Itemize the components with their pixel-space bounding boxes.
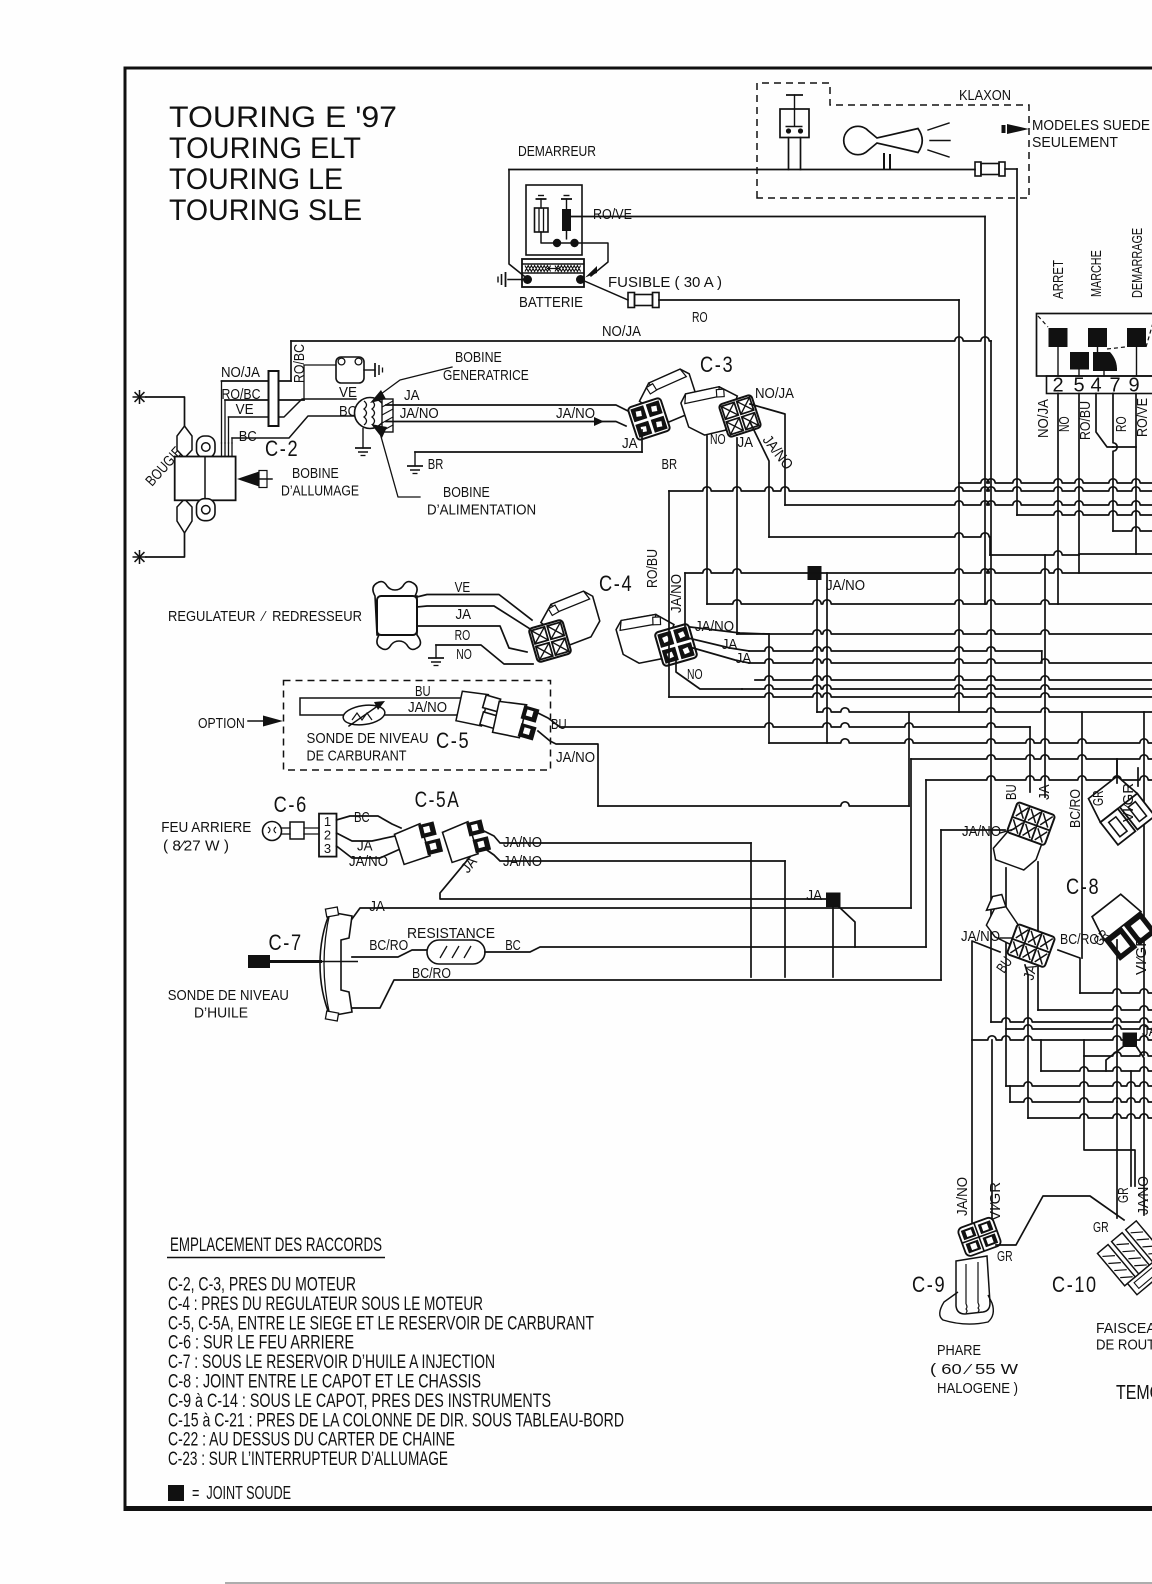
svg-text:JA/NO: JA/NO [556,405,595,422]
wire row 505 [785,501,1152,505]
svg-text:C-7 : SOUS LE RESERVOIR D’HUIL: C-7 : SOUS LE RESERVOIR D’HUILE A INJECT… [168,1352,495,1373]
wire link 1086 1102 [1009,1086,1011,1102]
solder joint JA/NO [808,566,822,580]
svg-text:JA/NO: JA/NO [400,405,439,422]
wire joint down [816,580,818,712]
svg-text:NO/JA: NO/JA [755,385,794,402]
svg-text:JA/NO: JA/NO [695,618,734,635]
wire GR down [1116,940,1118,1102]
svg-text:VI⁄GR: VI⁄GR [1120,783,1137,822]
svg-text:3: 3 [324,841,331,856]
horn fuse [975,162,981,176]
svg-text:GR: GR [1090,790,1107,806]
headlamp connector C-9 [957,1216,1002,1257]
wire row 1029 [1006,1025,1152,1029]
wire 827 down [826,573,828,743]
wire row 697 [669,693,1152,697]
wire row 604 [707,600,1152,604]
wire JA from C-6 [337,833,396,841]
battery terminal dots [523,275,532,284]
connector C-3 male [621,367,704,441]
svg-text:C-3: C-3 [700,352,734,377]
joint JA branches [838,906,855,947]
spark plug star top [133,390,147,404]
wire RO/VE from starter [571,216,985,218]
wire JA from C-7 [352,908,911,919]
wire row 1086 [1006,1082,1152,1086]
tail light socket [290,822,304,839]
wire BU row 727 [560,723,1030,727]
wire BR from C-3 [641,430,643,438]
svg-text:= JOINT SOUDE: = JOINT SOUDE [192,1483,291,1503]
wire row 491 [669,487,1152,491]
wire pin2 down [1057,394,1059,605]
svg-text:BOBINE: BOBINE [455,349,502,366]
svg-text:TOURING SLE: TOURING SLE [169,194,362,227]
svg-text:SONDE DE NIVEAU: SONDE DE NIVEAU [307,730,429,747]
svg-text:JA/NO: JA/NO [954,1177,971,1216]
wire row 680 [755,676,1152,680]
spark plug boot top [177,426,192,458]
svg-text:TOURING E '97: TOURING E '97 [169,101,397,134]
wire row 1010 [1038,1006,1152,1010]
switch internal links [1057,347,1059,376]
wires right edge connectors [1116,759,1118,783]
svg-text:C-9 à C-14 : SOUS LE CAPOT, PR: C-9 à C-14 : SOUS LE CAPOT, PRES DES INS… [168,1391,551,1412]
svg-text:9: 9 [1128,375,1139,397]
wire JA/NO C-5A row 861 [484,848,785,861]
klaxon dashed enclosure [757,83,1029,198]
svg-text:7: 7 [1109,375,1120,397]
svg-text:VI⁄GR: VI⁄GR [1133,936,1150,975]
wire RO/BC to stop switch [304,365,336,400]
svg-text:JA: JA [357,837,373,854]
svg-text:BU: BU [415,683,431,700]
wire row 712 [817,708,1152,712]
wire BU out of C-8 lower [972,941,1000,1222]
connector C-5A male [393,820,443,865]
legend underline [167,1257,385,1259]
svg-text:OPTION: OPTION [198,715,245,732]
wire RO/BC coil [224,400,226,443]
svg-text:GR: GR [997,1248,1013,1265]
wire battery positive cable [509,170,524,277]
wire column 1045 [1044,555,1046,712]
wire C-9 feeds [991,1040,993,1222]
wire NO/JA up and across [290,341,292,381]
wire C-10 feeds [1084,1040,1135,1186]
wire JA/NO from C-4 [690,627,769,634]
connector C-8 upper [990,799,1055,873]
svg-text:BOBINE: BOBINE [443,484,490,501]
connector C-8R upper right [1084,773,1152,845]
wire JA/NO joint to C-4 [684,573,686,628]
svg-text:C-6: C-6 [274,792,308,817]
svg-text:SONDE DE NIVEAU: SONDE DE NIVEAU [168,987,289,1004]
svg-text:FAISCEAU: FAISCEAU [1096,1320,1152,1337]
svg-text:BC/RO: BC/RO [1067,789,1084,828]
wire column 1131 [1130,1071,1132,1186]
legend joint soude symbol [168,1485,184,1501]
horn [844,126,923,154]
headlamp socket [956,1256,990,1314]
svg-text:BC: BC [239,428,257,445]
svg-text:TOURING ELT: TOURING ELT [169,132,361,165]
wire klaxon down [1016,169,1018,515]
option dashed box [284,681,551,771]
arrow modeles suede [1007,124,1029,134]
svg-text:JA: JA [736,650,752,667]
connector C-8 lower [975,891,1063,967]
wire starter to battery positive [579,243,609,276]
wire JA into C-8 upper [1044,712,1046,797]
starter contact dots [553,239,561,247]
wire JA/NO to C-10 [1143,1180,1145,1215]
svg-text:DEMARREUR: DEMARREUR [518,143,596,160]
svg-text:VI⁄GR: VI⁄GR [987,1182,1004,1221]
wire column 1117 [1116,759,1118,790]
spark plug star bottom [133,550,147,564]
svg-text:FEU ARRIERE: FEU ARRIERE [161,819,251,836]
connector C-2 bar [269,371,279,426]
svg-text:C-2, C-3, PRES DU MOTEUR: C-2, C-3, PRES DU MOTEUR [168,1275,356,1296]
wire JA regulator [417,606,538,634]
oil sender body [320,912,352,1016]
svg-text:MARCHE: MARCHE [1088,250,1105,297]
magneto coil circle [355,398,386,429]
wire row 1118 [1028,1114,1152,1118]
svg-text:NO/JA: NO/JA [1035,399,1052,438]
svg-text:RO/BU: RO/BU [644,549,661,588]
svg-text:C-8 : JOINT ENTRE LE CAPOT ET: C-8 : JOINT ENTRE LE CAPOT ET LE CHASSIS [168,1372,481,1393]
svg-text:C-4: C-4 [599,571,633,596]
wire column 1082 [1081,712,1083,958]
solder joint JA [826,893,841,908]
wire pin9 down [1135,394,1137,555]
wire BC from resistance [485,947,926,952]
svg-text:VE: VE [339,384,357,401]
wire row 447 [1113,446,1136,448]
svg-text:C-8: C-8 [1066,874,1100,899]
horn stem [883,153,885,170]
wire NO from C-4 [676,660,742,689]
wire NO/JA coil [221,381,224,443]
wire BU from C-5 [536,712,560,727]
svg-text:RO/VE: RO/VE [593,206,632,223]
horn relay legs [788,138,790,170]
wire row 573 [685,569,1152,573]
wire row 531 [1113,527,1152,531]
wire row 554 [1079,553,1152,555]
wires out of C-8 upper [1037,862,1039,1010]
svg-text:NO/JA: NO/JA [221,364,260,381]
svg-text:BU: BU [1003,784,1020,800]
wire row 663 [749,659,1152,663]
connector C-6 bar [319,814,337,857]
starter terminal symbol left [540,199,542,208]
arrow bobine generatrice [370,390,386,403]
wire BC coil [231,438,233,443]
svg-text:C-5A: C-5A [415,787,461,812]
oil sender probe [248,955,270,968]
wire riser 926 [925,780,927,947]
svg-text:HALOGENE ): HALOGENE ) [937,1380,1018,1397]
svg-text:VE: VE [455,579,471,596]
svg-text:C-10: C-10 [1052,1272,1098,1297]
wire riser 911 [910,759,912,908]
wire RO regulator [417,626,527,652]
wire row 634 [737,630,1152,634]
wire JA/NO from C-5 [538,731,598,806]
arrow bobine alimentation [371,424,387,438]
svg-text:JA: JA [738,434,754,451]
svg-text:EMPLACEMENT DES RACCORDS: EMPLACEMENT DES RACCORDS [170,1235,382,1256]
connector C-5 male [454,687,503,731]
svg-text:NO/JA: NO/JA [602,323,641,340]
svg-text:RO: RO [692,309,708,326]
coil wires entering [221,443,223,457]
switch contact DEMARRAGE [1127,328,1146,347]
svg-text:BOBINE: BOBINE [292,465,339,482]
svg-text:JA: JA [456,606,472,623]
switch pin row box [1047,376,1152,394]
svg-text:C-5: C-5 [436,728,470,753]
magneto ground [362,429,364,449]
starter contact bar [562,209,571,231]
svg-text:C-2: C-2 [265,436,299,461]
wire link 1040 1071 [1040,1040,1042,1071]
svg-text:C-6 : SUR LE FEU ARRIERE: C-6 : SUR LE FEU ARRIERE [168,1333,354,1354]
svg-text:C-7: C-7 [269,930,303,955]
connector C-8R lower right [1088,891,1152,961]
svg-text:BC: BC [354,809,370,826]
wire row 1056 [1084,1052,1152,1056]
wire riser 941 [940,830,942,980]
connector C-5A female [441,818,491,863]
svg-text:JA: JA [404,387,420,404]
ignition coil body [175,457,236,501]
wire pin5 down [1078,394,1080,556]
svg-text:VE: VE [236,401,254,418]
wire JA magneto to C-3 [386,405,628,411]
svg-text:( 8⁄27 W ): ( 8⁄27 W ) [163,837,229,854]
svg-text:BR: BR [662,456,678,473]
svg-text:JA/NO: JA/NO [961,928,1000,945]
svg-text:TEMOIN: TEMOIN [1116,1382,1152,1404]
wire VE coil [228,417,230,443]
switch rotor wedge [1093,352,1117,371]
svg-text:REGULATEUR ⁄ REDRESSEUR: REGULATEUR ⁄ REDRESSEUR [168,608,362,625]
wire riser 909 [908,712,910,806]
svg-text:C-22 : AU DESSUS DU CARTER DE: C-22 : AU DESSUS DU CARTER DE CHAINE [168,1430,455,1451]
wire row 743 [769,739,1152,743]
svg-text:JA: JA [369,898,385,915]
svg-text:NO: NO [456,646,472,663]
svg-text:RO: RO [455,627,471,644]
svg-text:DE ROUTE: DE ROUTE [1096,1336,1152,1353]
connector C-4 male [523,589,607,662]
wire BC from C-6 [337,816,402,828]
starter solenoid coil [535,208,549,232]
stop switch ground [364,369,375,371]
magneto core hatched [382,399,393,432]
svg-text:JA: JA [622,435,638,452]
switch contact lower [1070,352,1089,370]
svg-text:C-9: C-9 [912,1272,946,1297]
wire column 1144 [1143,712,1145,1055]
wire GR C-9 to C-10 [996,1196,1124,1245]
svg-text:JA/NO: JA/NO [556,749,595,766]
regulator ground [435,645,437,658]
svg-text:JA/NO: JA/NO [962,823,1001,840]
wire JA/NO row 806 [598,802,909,806]
wire JA from C-4 row 663 [693,648,749,663]
horn sound lines [928,123,949,130]
wire GR to C-10 [1116,1102,1118,1218]
wire row 483 [959,479,1152,483]
ignition coil mount tab bottom [197,499,216,521]
wire row 1071 [1041,1067,1152,1071]
wire RO/BU down to C-4 [668,491,670,697]
battery [522,259,584,287]
svg-text:C-5, C-5A, ENTRE LE SIEGE ET L: C-5, C-5A, ENTRE LE SIEGE ET LE RESERVOI… [168,1313,594,1334]
scan artifact bottom line [225,1582,1152,1584]
starter terminal symbol right [566,199,568,209]
regulator rectifier [373,582,421,650]
svg-text:TOURING LE: TOURING LE [169,163,343,196]
ignition coil mount tab top [197,436,216,458]
ground BR [414,452,416,466]
svg-text:C-23 : SUR L’INTERRUPTEUR D’AL: C-23 : SUR L’INTERRUPTEUR D’ALLUMAGE [168,1449,448,1470]
wire RO down [958,300,960,712]
ignition switch box [1037,314,1152,377]
svg-text:C-4 : PRES DU REGULATEUR SOUS: C-4 : PRES DU REGULATEUR SOUS LE MOTEUR [168,1294,483,1315]
connector C-3 female [679,375,762,449]
battery plate zigzag left [525,266,551,272]
headlamp shell [940,1292,994,1324]
svg-text:BC/RO: BC/RO [369,937,408,954]
svg-text:FUSIBLE ( 30 A ): FUSIBLE ( 30 A ) [608,274,722,291]
wire NO/JA down [990,341,992,1022]
battery ground symbol [508,279,523,281]
wire row 537 staircase [769,533,990,537]
fuel sender bar [300,698,466,715]
svg-text:D’ALLUMAGE: D’ALLUMAGE [281,483,359,500]
svg-text:DEMARRAGE: DEMARRAGE [1129,228,1146,298]
wire BU into C-8 upper [1029,727,1031,792]
wire JA from C-4 row 651 [688,638,749,651]
svg-text:GR: GR [1093,1219,1109,1236]
wire row 993 [1080,989,1152,993]
wire row 759 [911,755,1152,759]
svg-text:BU: BU [551,716,567,733]
svg-text:C-15 à C-21 : PRES DE LA COLON: C-15 à C-21 : PRES DE LA COLONNE DE DIR.… [168,1410,624,1431]
svg-text:JA/NO: JA/NO [408,699,447,716]
connector C-4 female [614,603,698,676]
svg-text:DE CARBURANT: DE CARBURANT [307,748,407,765]
wire BR [415,451,642,453]
wire VE regulator [417,595,532,621]
fuel sender rheostat [342,703,386,728]
wire row 1022 [991,1018,1152,1022]
starter internal wires [541,232,575,243]
connector C-5 female [491,697,542,743]
svg-text:RO: RO [1113,416,1130,432]
resistance [427,940,485,964]
svg-text:JA/NO: JA/NO [349,853,388,870]
wire spark plug top [146,397,185,426]
svg-text:KLAXON: KLAXON [959,87,1011,104]
svg-text:JA/NO: JA/NO [668,574,685,613]
fuse 30A [628,293,635,308]
svg-text:RO/BC: RO/BC [291,344,308,383]
wire pin7 down [1113,394,1117,532]
wire BC/RO to resistance [352,950,427,957]
wire JA out of C-8 lower [1025,965,1028,1118]
engine stop switch [336,357,364,383]
svg-text:JA: JA [806,887,822,904]
starter solenoid box [526,185,582,255]
svg-text:D’ALIMENTATION: D’ALIMENTATION [427,502,536,519]
svg-text:MODELES SUEDE: MODELES SUEDE [1032,117,1150,134]
wire RO/VE down [984,217,986,605]
switch contact MARCHE [1088,328,1107,347]
wire spark plug bottom [146,533,185,557]
tail light bulb [263,822,282,841]
svg-text:PHARE: PHARE [937,1342,981,1359]
svg-text:SEULEMENT: SEULEMENT [1032,134,1118,151]
svg-text:JA/NO: JA/NO [826,577,865,594]
battery plate zigzag right [555,266,581,272]
switch dashed diagonals [1038,316,1048,327]
svg-text:D’HUILE: D’HUILE [194,1005,248,1022]
joint JA bottom branches [1106,1046,1124,1071]
wire JA/NO C-5A row 843 [482,830,751,843]
connector C-10 [1097,1213,1152,1297]
arrow bobine allumage [237,472,259,487]
spark plug boot bottom [177,499,192,533]
wire klaxon feed [1005,168,1017,170]
wire row 780 [926,776,1152,780]
svg-text:GENERATRICE: GENERATRICE [443,367,529,384]
switch contact ARRET [1049,328,1068,347]
wire row 689 [742,685,1152,689]
wire battery to fuse [585,281,629,300]
wire JA/NO from C-6 [337,846,399,858]
svg-text:BR: BR [428,456,444,473]
wire BC/RO out of C-8 lower [1058,950,1080,993]
horn relay [780,109,809,138]
wire BC/RO lower [352,980,941,1008]
wire NO regulator [436,645,533,664]
arrow option [248,720,266,722]
wire pin4 down [1096,394,1113,448]
svg-text:NO: NO [710,431,726,448]
wire row 1102 [1010,1098,1152,1102]
wire JA/NO magneto to C-3 [386,421,600,423]
wire klaxon across [1017,511,1152,515]
svg-text:( 60 ⁄ 55 W: ( 60 ⁄ 55 W [930,1361,1019,1378]
wire RO from fuse [659,299,959,301]
svg-text:ARRET: ARRET [1050,260,1067,299]
wire row 1040 [972,1036,1152,1040]
solder joint JA bottom [1123,1033,1138,1048]
svg-text:BATTERIE: BATTERIE [519,294,583,311]
